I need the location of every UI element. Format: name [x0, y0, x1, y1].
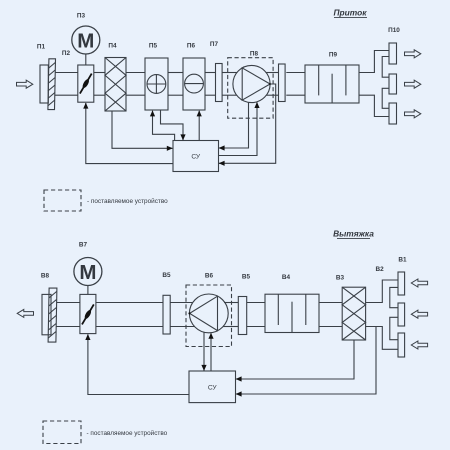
wire filter B3 to SU	[236, 340, 354, 379]
outlet grille P10 c	[389, 103, 397, 124]
svg-text:- поставляемое устройство: - поставляемое устройство	[87, 429, 168, 437]
wire SU to damper	[88, 334, 189, 394]
filter P4	[105, 58, 126, 112]
wire duct P1-P2	[55, 72, 78, 74]
svg-text:П4: П4	[108, 43, 117, 50]
wire duct fan-B5 right	[224, 302, 238, 304]
svg-text:П3: П3	[77, 13, 86, 20]
flexible connector B5 right	[238, 297, 246, 335]
wire SU to cooler P6	[198, 111, 200, 141]
wire duct B4-B3	[319, 302, 342, 304]
svg-text:П10: П10	[388, 27, 400, 34]
wire SU to fan P8	[219, 102, 258, 155]
cooler P6	[183, 58, 205, 110]
wire duct P5-P6	[168, 72, 183, 74]
svg-text:В7: В7	[79, 241, 88, 248]
inlet grille B1 c	[398, 333, 405, 357]
wire fan P8 to SU	[219, 102, 249, 148]
legend supplied device (top)	[44, 190, 81, 211]
svg-text:Вытяжка: Вытяжка	[333, 229, 374, 239]
damper (exhaust)	[80, 294, 96, 333]
svg-text:П9: П9	[329, 52, 338, 59]
svg-text:M: M	[79, 261, 96, 284]
outflow arrow b	[405, 80, 421, 88]
motor P3	[72, 26, 100, 54]
fan B6	[188, 294, 228, 333]
exhaust outlet flow arrow	[17, 309, 33, 317]
svg-text:В5: В5	[162, 272, 171, 279]
svg-text:В8: В8	[41, 273, 50, 280]
inflow arrow b	[411, 310, 427, 318]
supply inlet flow arrow	[17, 80, 33, 88]
inflow arrow a	[411, 279, 427, 287]
wire duct fan-bar	[266, 72, 278, 74]
wire duct P6-P7	[205, 72, 216, 74]
title Приток	[334, 8, 368, 18]
wire fan B6 to SU	[203, 332, 205, 370]
outlet grille P10 b	[389, 74, 397, 94]
svg-text:- поставляемое устройство: - поставляемое устройство	[87, 197, 168, 205]
outlet grille P10 a	[389, 43, 397, 64]
fan unit B6 dashed enclosure	[186, 285, 232, 347]
control unit SU bottom	[189, 371, 236, 403]
inlet grille B1 b	[398, 303, 405, 326]
fan unit P8 dashed enclosure	[228, 58, 273, 118]
wire SU to heater P5	[153, 111, 175, 141]
wire duct sensor to SU	[236, 327, 376, 395]
wire duct B5-B4	[247, 302, 265, 304]
wire duct B5-fan	[170, 302, 194, 304]
inlet grille B1 a	[398, 272, 405, 295]
svg-text:П5: П5	[149, 43, 158, 50]
svg-text:В6: В6	[205, 273, 214, 280]
svg-text:В5: В5	[242, 274, 251, 281]
outflow arrow c	[405, 110, 421, 118]
silencer P9	[305, 65, 359, 103]
wire filter P4 to SU	[112, 111, 172, 148]
heater P5	[145, 58, 168, 110]
wire branch link 2-3	[390, 317, 398, 339]
flexible connector P7	[216, 64, 223, 102]
control unit SU top	[173, 141, 219, 172]
flexible connector after fan	[279, 64, 286, 102]
wire duct P2-P4	[94, 72, 105, 74]
inflow arrow c	[411, 341, 427, 349]
damper P2	[78, 65, 94, 102]
svg-text:СУ: СУ	[208, 384, 218, 391]
legend supplied device (bottom)	[43, 421, 81, 444]
wire duct damper-B5	[96, 302, 163, 304]
wire SU to damper P2	[86, 103, 173, 164]
svg-text:СУ: СУ	[191, 154, 201, 161]
svg-text:В1: В1	[398, 256, 407, 263]
wire duct bar-P9	[286, 72, 305, 74]
wire motor link	[85, 54, 87, 65]
labels top	[37, 13, 400, 59]
svg-text:В3: В3	[336, 274, 345, 281]
wire heater P5 to SU	[161, 110, 184, 140]
wire duct sensor to SU	[219, 84, 276, 163]
wire duct P9 to branch trunk	[359, 51, 389, 73]
wire SU to fan B6	[210, 333, 212, 371]
svg-text:П6: П6	[187, 43, 196, 50]
flexible connector B5 left	[163, 295, 170, 334]
silencer B4	[265, 294, 319, 332]
svg-text:П7: П7	[210, 41, 219, 48]
svg-text:M: M	[77, 29, 94, 52]
labels bottom	[41, 241, 407, 281]
svg-text:Приток: Приток	[334, 8, 368, 18]
svg-text:П8: П8	[250, 51, 259, 58]
svg-text:В4: В4	[282, 274, 291, 281]
wire duct B8-damper	[56, 302, 80, 304]
fan P8	[233, 65, 271, 102]
title Вытяжка	[333, 229, 374, 239]
wire branch link 2-3	[382, 88, 389, 108]
svg-text:В2: В2	[376, 266, 385, 273]
wire motor link B7	[87, 286, 89, 295]
louvre grille B8	[42, 294, 51, 334]
wire branch link 1-2	[382, 57, 389, 78]
svg-text:П1: П1	[37, 44, 46, 51]
wire duct P4-P5	[126, 72, 145, 74]
wire duct P7-fan	[222, 72, 238, 74]
louvre grille P1	[40, 65, 48, 103]
wire branch link 1-2	[390, 287, 398, 307]
filter B3	[342, 287, 365, 340]
svg-text:П2: П2	[62, 50, 71, 57]
outflow arrow a	[405, 50, 421, 58]
motor B7	[74, 258, 102, 286]
wire duct B3 to branch trunk B2	[366, 280, 398, 303]
